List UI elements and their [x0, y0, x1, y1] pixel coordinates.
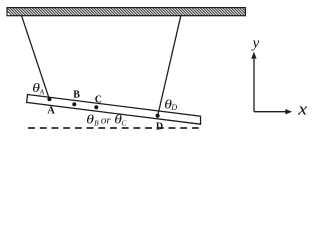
point C (dot on rod)	[94, 105, 98, 109]
x axis arrowhead	[285, 109, 292, 114]
ceiling (hatched support bar)	[4, 8, 253, 16]
point B (dot on rod)	[72, 102, 76, 106]
svg-text:B: B	[94, 118, 99, 127]
svg-text:D: D	[170, 103, 177, 112]
point A (dot on rod)	[47, 97, 51, 101]
svg-text:C: C	[121, 118, 127, 127]
svg-text:θ: θ	[86, 113, 94, 127]
right string (ceiling to point D)	[158, 16, 181, 116]
svg-text:y: y	[251, 36, 260, 52]
point D (dot on rod)	[156, 114, 160, 118]
rod (suspended bar)	[27, 95, 201, 125]
y axis arrowhead	[251, 52, 256, 59]
dashed horizontal reference line	[28, 127, 200, 129]
svg-text:or: or	[101, 115, 112, 127]
svg-text:C: C	[95, 94, 102, 105]
x axis	[254, 111, 287, 113]
left string (ceiling to point A)	[22, 16, 50, 100]
svg-text:x: x	[297, 100, 308, 119]
y axis	[253, 58, 255, 112]
svg-text:B: B	[73, 90, 80, 101]
svg-text:A: A	[39, 88, 45, 97]
svg-text:D: D	[156, 122, 163, 133]
svg-text:A: A	[47, 105, 55, 116]
